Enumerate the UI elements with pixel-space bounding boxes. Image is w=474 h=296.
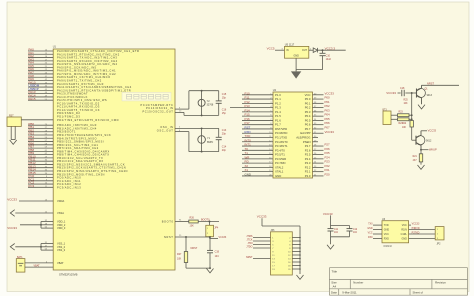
junction NRST left xyxy=(185,236,187,238)
wire JTAG right stub 6 xyxy=(292,244,300,246)
wire C18 to base xyxy=(405,92,416,94)
svg-text:15p: 15p xyxy=(222,97,227,100)
transistor Q1 circle xyxy=(416,88,425,97)
resistor R27 body xyxy=(184,252,187,263)
svg-text:U5 1117: U5 1117 xyxy=(285,42,295,46)
svg-text:VCC33: VCC33 xyxy=(412,223,420,226)
wire U2 pin P0.1 xyxy=(313,102,324,104)
svg-text:BOOT0: BOOT0 xyxy=(201,219,210,222)
wire regulator GND stub xyxy=(295,58,297,69)
wire MCU pin PA5 xyxy=(28,66,53,68)
svg-text:C12: C12 xyxy=(353,229,358,231)
wire U3 to JP2 pin2 xyxy=(409,233,436,235)
wire U2 pin P3.7/RD xyxy=(242,162,273,164)
wire S3 upper xyxy=(391,114,398,116)
wire osc bottom rail xyxy=(184,114,219,116)
wire ground stub regulator xyxy=(295,70,297,72)
JTAG connector JP1 body xyxy=(271,232,293,275)
wire MCU pin PB2 xyxy=(28,131,53,133)
wire U2 pin P2.0 xyxy=(313,175,324,177)
svg-text:C10: C10 xyxy=(326,55,331,58)
svg-text:VSS_3: VSS_3 xyxy=(57,248,66,252)
wire U2 pin P1.1 xyxy=(242,98,273,100)
svg-text:10K: 10K xyxy=(190,225,195,228)
wire MCU pin PA9 xyxy=(28,80,53,82)
title block mid line xyxy=(329,278,467,280)
wire U2 pin P2.7 xyxy=(313,145,324,147)
wire Q1 node vertical xyxy=(411,93,413,121)
junction JTAG bus 12 xyxy=(299,254,301,256)
svg-text:R1IN: R1IN xyxy=(401,228,407,231)
wire JTAG right stub 12 xyxy=(292,254,300,256)
svg-text:IN: IN xyxy=(286,49,289,52)
svg-text:R21: R21 xyxy=(413,156,418,158)
wire MCU pin PB15 xyxy=(28,173,53,175)
capacitor C12 plates xyxy=(347,229,353,231)
svg-text:PC3/ADC_IN13: PC3/ADC_IN13 xyxy=(57,185,81,189)
junction R24 node xyxy=(411,118,413,120)
wire U2 pin P1.3 xyxy=(230,107,273,109)
ground NRST circuit xyxy=(207,269,214,273)
wire MCU pin PA7 xyxy=(28,73,53,75)
svg-text:RST: RST xyxy=(9,115,14,117)
junction R23 node xyxy=(411,114,413,116)
wire MCU pin PA1 xyxy=(28,53,53,55)
transistor Q2 collector xyxy=(416,131,421,138)
wire VSS_3 xyxy=(41,249,53,251)
wire VBAT lower xyxy=(25,266,53,268)
wire Q2 emitter to R21 xyxy=(420,150,422,154)
wire U2 pin P2.6 xyxy=(313,149,324,151)
wire U2 pin P2.1 xyxy=(313,171,324,173)
transistor Q2 base bar xyxy=(415,136,417,145)
wire U2 pin P2.5 xyxy=(313,154,324,156)
svg-text:Sheet of: Sheet of xyxy=(413,291,424,295)
svg-text:VCC33: VCC33 xyxy=(386,91,396,95)
wire U2 pin ALE/PROG xyxy=(313,137,319,139)
button S2 body xyxy=(7,117,21,126)
wire U2 pin P3.6/WR xyxy=(242,158,273,160)
svg-text:10K: 10K xyxy=(177,258,182,261)
wire MCU pin PC2 xyxy=(28,183,53,185)
svg-text:RXD: RXD xyxy=(384,237,389,240)
svg-text:NRST: NRST xyxy=(191,247,198,250)
junction JTAG bus 10 xyxy=(299,251,301,253)
svg-text:VCC3.3: VCC3.3 xyxy=(325,46,336,50)
wire U2 pin P2.2 xyxy=(313,166,324,168)
wire decoupling to ground xyxy=(330,237,332,245)
wire VSSA xyxy=(15,212,53,214)
wire U2 pin P1.2 xyxy=(242,102,273,104)
junction VSS bus xyxy=(40,246,42,248)
wire MCU pin PA0 xyxy=(28,50,53,52)
junction VDD bus xyxy=(40,224,42,226)
svg-text:VCC: VCC xyxy=(402,224,407,227)
wire U3 pin VCC xyxy=(373,233,382,235)
wire U2 pin PSEN xyxy=(313,141,319,143)
wire U2 pin P3.3/INT1 xyxy=(242,145,273,147)
key button S3 body xyxy=(383,111,391,125)
wire WKUP xyxy=(421,149,429,151)
svg-text:VCC33: VCC33 xyxy=(325,130,335,134)
svg-text:Number: Number xyxy=(353,280,363,284)
resistor R22 body xyxy=(410,121,413,128)
wire OSC_OUT to osc xyxy=(175,131,189,133)
junction JTAG bus 8 xyxy=(299,247,301,249)
wire cap C11 lower xyxy=(330,231,332,237)
svg-text:WKUP: WKUP xyxy=(429,148,437,152)
wire JTAG right stub 18 xyxy=(292,265,300,267)
wire MCU pin USBDM xyxy=(28,86,53,88)
svg-text:VCC33: VCC33 xyxy=(257,214,267,218)
MCU U1 body STM32F103 xyxy=(53,49,175,270)
svg-text:VDD_3: VDD_3 xyxy=(57,226,66,230)
wire MCU pin PB11 xyxy=(28,160,53,162)
svg-text:10K: 10K xyxy=(404,103,409,105)
svg-text:VCC33: VCC33 xyxy=(323,212,333,216)
svg-text:IRM232: IRM232 xyxy=(384,245,393,248)
wire S2 leg join xyxy=(11,139,15,141)
wire VDD feed xyxy=(20,224,41,226)
wire decoupling top rail xyxy=(331,225,350,227)
wire JTAG JTMS xyxy=(253,237,271,239)
svg-text:VCC33: VCC33 xyxy=(7,197,17,201)
wire MCU pin PA15 xyxy=(28,99,53,101)
wire JTAG right stub 4 xyxy=(292,240,300,242)
wire U2 pin P1.5 xyxy=(242,115,273,117)
svg-text:JTDO: JTDO xyxy=(246,246,252,249)
capacitor C10 plates xyxy=(320,53,326,55)
wire U2 pin P3.1/TXD xyxy=(242,137,273,139)
wire JTAG JTCK xyxy=(253,240,271,242)
wire VDD_3 xyxy=(41,227,53,229)
capacitor C15 plates xyxy=(216,101,222,103)
svg-text:32768: 32768 xyxy=(207,104,214,107)
svg-text:NRST: NRST xyxy=(427,82,434,86)
svg-text:GND: GND xyxy=(294,55,300,58)
ground arrow VSS xyxy=(10,244,14,251)
wire U2 pin P3.5/T1 xyxy=(242,154,273,156)
battery BT1 body xyxy=(16,259,25,273)
junction crystal bottom xyxy=(201,114,203,116)
title block top line xyxy=(329,267,467,269)
ground decoupling caps xyxy=(327,245,334,249)
wire MCU pin PB6 xyxy=(28,144,53,146)
junction JTAG bus 14 xyxy=(299,258,301,260)
wire cap C12 upper xyxy=(349,226,351,229)
wire MCU pin PC1 xyxy=(28,180,53,182)
wire VCC33 output xyxy=(318,49,346,51)
wire U2 pin P3.2/INT0 xyxy=(242,141,273,143)
svg-text:VCC33: VCC33 xyxy=(7,226,17,230)
wire U3 pin TXD xyxy=(373,224,382,226)
svg-text:VSSA: VSSA xyxy=(57,211,64,215)
wire U3 pin GND xyxy=(373,229,382,231)
wire BOOT0 from MCU xyxy=(175,221,189,223)
wire VCC5 to regulator xyxy=(275,49,285,51)
wire MCU pin PA8 xyxy=(28,76,53,78)
wire U2 pin VCC xyxy=(313,94,324,96)
wire cap column lower 8M xyxy=(218,140,220,152)
svg-text:OUT: OUT xyxy=(302,49,308,52)
wire MCU pin PB9 xyxy=(28,154,53,156)
resistor R24 body xyxy=(398,118,410,121)
wire S3 lower xyxy=(391,118,398,120)
wire PC14 to osc xyxy=(175,108,189,110)
title block divider number-revision xyxy=(431,279,433,288)
wire U3 pin RXD xyxy=(373,237,382,239)
wire U2 pin P0.2 xyxy=(313,107,324,109)
junction BOOT0 xyxy=(209,221,211,223)
wire U2 pin RST/VPD xyxy=(242,128,273,130)
svg-text:20p: 20p xyxy=(222,149,227,152)
capacitor C11 plates xyxy=(328,229,334,231)
crystal Y2 vertical xyxy=(201,91,203,116)
wire VDD bus vertical xyxy=(40,222,42,229)
title block lower line xyxy=(329,288,467,290)
wire JTAG VCC horizontal xyxy=(262,225,300,227)
wire NRST cap upper xyxy=(209,237,211,250)
wire MCU pin PC0 xyxy=(28,177,53,179)
svg-text:VCC33: VCC33 xyxy=(428,128,437,132)
wire regulator OUT xyxy=(309,49,313,51)
wire S2 leg1 xyxy=(10,126,12,139)
wire MCU pin PA13 xyxy=(28,93,53,95)
junction Q2 emitter xyxy=(420,149,422,151)
svg-text:C18: C18 xyxy=(400,87,405,90)
svg-text:STM32F103VB: STM32F103VB xyxy=(59,273,78,277)
wire MCU pin PB12 xyxy=(28,163,53,165)
wire MCU pin PB5 xyxy=(28,141,53,143)
wire jumper top xyxy=(209,222,211,226)
transistor Q1 emitter xyxy=(417,95,422,104)
title block right border xyxy=(467,268,469,296)
wire R21 to ground xyxy=(420,162,422,165)
wire U2 pin XTAL1 xyxy=(242,171,273,173)
wire MCU pin PB3 xyxy=(28,134,53,136)
wire VCC33 to C18 xyxy=(398,92,401,94)
wire cap column upper 32k xyxy=(218,91,220,101)
wire PC15 to osc xyxy=(175,111,184,113)
resistor R21 body xyxy=(419,154,422,162)
junction JTAG bus 16 xyxy=(299,261,301,263)
wire JTAG right stub 14 xyxy=(292,258,300,260)
svg-text:R26: R26 xyxy=(190,217,195,220)
wire NRST pulldown lower xyxy=(185,263,187,269)
wire VSS feed xyxy=(15,246,41,248)
wire jumper to VCC33 xyxy=(210,238,219,240)
svg-text:9-Mar-2011: 9-Mar-2011 xyxy=(342,291,357,295)
ground Q1 emitter xyxy=(418,105,425,109)
svg-text:Revision: Revision xyxy=(435,280,446,284)
wire JTAG JTDO xyxy=(253,247,271,249)
svg-text:BT3: BT3 xyxy=(383,109,388,111)
svg-text:10K: 10K xyxy=(402,127,407,129)
title block bottom line xyxy=(329,294,467,296)
diode D1 xyxy=(313,48,317,53)
wire JTAG right stub 2 xyxy=(292,237,300,239)
wire MCU pin PB13 xyxy=(28,167,53,169)
wire VSS_2 xyxy=(41,246,53,248)
wire jumper bottom xyxy=(209,237,211,239)
svg-text:PA15: PA15 xyxy=(28,97,35,101)
wire osc left vertical upper xyxy=(188,91,190,109)
svg-text:C1RL: C1RL xyxy=(401,233,408,236)
junction NRST right xyxy=(209,236,211,238)
wire S2 leg2 xyxy=(14,126,16,139)
svg-text:VCC33: VCC33 xyxy=(219,236,227,239)
wire U2 pin P3.4/T0 xyxy=(242,149,273,151)
svg-text:OSC_OUT: OSC_OUT xyxy=(157,129,174,133)
resistor R26 body xyxy=(189,220,198,223)
wire U2 pin GND xyxy=(242,175,273,177)
crystal Y2 circle xyxy=(198,99,205,106)
svg-text:P3RXD: P3RXD xyxy=(412,227,420,230)
svg-text:P20: P20 xyxy=(325,172,331,176)
wire U2 pin P0.0 xyxy=(313,98,324,100)
wire MCU pin PB14 xyxy=(28,170,53,172)
capacitor C18 plates xyxy=(402,90,404,96)
svg-text:GND: GND xyxy=(401,237,407,240)
wire S2 to MCU PD2 xyxy=(21,119,53,121)
wire VBAT upper xyxy=(25,262,53,264)
wire Q1 collector to NRST xyxy=(422,84,460,86)
wire R22 to Q2 base xyxy=(411,127,413,140)
junction NRST rail xyxy=(209,267,211,269)
wire base Q2 xyxy=(412,139,416,141)
wire JTAG right stub 16 xyxy=(292,261,300,263)
wire U2 pin P0.3 xyxy=(313,111,324,113)
svg-text:OSC_IN: OSC_IN xyxy=(160,125,173,129)
wire osc left vertical lower xyxy=(183,112,185,115)
wire VSS bus vertical xyxy=(40,244,42,251)
svg-text:15p: 15p xyxy=(222,112,227,115)
wire OSC_IN rail xyxy=(175,127,219,129)
wire decoupling feed xyxy=(330,215,332,225)
wire cap C10 lower xyxy=(322,56,324,70)
ground JTAG xyxy=(297,275,304,279)
junction JTAG bus 4 xyxy=(299,240,301,242)
battery BT1 plates xyxy=(18,263,24,266)
svg-text:R22: R22 xyxy=(402,123,407,125)
wire MCU pin USBDP xyxy=(28,89,53,91)
crystal Y1 vertical xyxy=(201,128,203,151)
svg-text:9012: 9012 xyxy=(426,140,432,143)
wire MCU pin PB7 xyxy=(28,147,53,149)
wire U3 to JP2 pin1 xyxy=(409,229,436,231)
regulator U5 AMS1117 body xyxy=(285,46,309,58)
wire JTAG VCC vertical xyxy=(261,218,263,226)
svg-text:NRST: NRST xyxy=(246,256,253,259)
title block left border xyxy=(328,268,330,296)
wire U2 pin P2.3 xyxy=(313,162,324,164)
wire osc top rail xyxy=(189,90,219,92)
svg-text:PC15/OSC32_OUT: PC15/OSC32_OUT xyxy=(142,109,173,113)
wire U3 VCC out xyxy=(409,224,411,226)
wire R23 to node xyxy=(409,114,412,116)
svg-text:BOOT0: BOOT0 xyxy=(162,220,174,224)
crystal Y1 circle xyxy=(198,136,206,144)
wire MCU pin PB0 xyxy=(28,124,53,126)
wire 8M left vertical xyxy=(188,132,190,152)
wire regulator ground rail xyxy=(296,69,322,71)
wire 8M bottom rail xyxy=(189,151,219,153)
wire JTAG ground bus xyxy=(299,238,301,275)
wire MCU pin PB4 xyxy=(28,137,53,139)
svg-text:VCC: VCC xyxy=(384,233,389,236)
MCU U2 body AT89C52 xyxy=(273,92,313,178)
wire JTAG NRST xyxy=(253,258,271,260)
svg-text:R23: R23 xyxy=(399,112,404,114)
wire NRST from MCU xyxy=(175,236,210,238)
power ground regulator xyxy=(291,71,301,78)
svg-text:R25: R25 xyxy=(404,99,409,101)
svg-text:20p: 20p xyxy=(222,132,227,135)
junction JTAG bus 2 xyxy=(299,237,301,239)
sheet cream patch under title block xyxy=(329,290,468,295)
wire U2 pin EA/VPP xyxy=(313,132,324,134)
wire U2 pin P3.0/RXD xyxy=(242,132,273,134)
ground S2 xyxy=(10,140,17,144)
svg-text:P2.0: P2.0 xyxy=(305,174,311,178)
wire cap column lower 32k xyxy=(218,103,220,115)
svg-text:TXD: TXD xyxy=(384,224,389,227)
svg-text:R27: R27 xyxy=(177,253,182,256)
ground Q2 circuit xyxy=(418,165,425,169)
wire MCU pin PA10 xyxy=(28,83,53,85)
wire cap C12 lower xyxy=(349,231,351,237)
junction JTAG bus 6 xyxy=(299,244,301,246)
svg-text:GND: GND xyxy=(367,228,372,230)
wire MCU pin PA2 xyxy=(28,57,53,59)
svg-text:VBAT: VBAT xyxy=(34,264,41,267)
wire MCU pin PA3 xyxy=(28,60,53,62)
wire cap C11 upper xyxy=(330,226,332,229)
wire U2 pin P0.6 xyxy=(313,124,324,126)
transistor Q2 emitter xyxy=(416,143,421,150)
wire U2 pin P0.5 xyxy=(313,119,324,121)
svg-text:NRST: NRST xyxy=(164,235,173,239)
capacitor C19 plates xyxy=(207,250,213,252)
wire decoupling bottom rail xyxy=(331,236,350,238)
wire NRST cap lower xyxy=(209,253,211,268)
svg-text:JP1: JP1 xyxy=(271,229,276,232)
svg-text:4K7: 4K7 xyxy=(413,160,418,162)
wire VDDA xyxy=(19,200,53,202)
wire MCU pin PA6 xyxy=(28,70,53,72)
svg-text:Title: Title xyxy=(332,269,338,273)
header JP2 body xyxy=(435,227,444,240)
capacitor C13 plates xyxy=(216,137,222,139)
wire JTAG right stub 20 xyxy=(292,268,300,270)
wire U3 to JP2 pin3 xyxy=(409,237,436,239)
wire JTAG JTDI xyxy=(253,244,271,246)
wire VSS_1 xyxy=(41,243,53,245)
resistor R23 body xyxy=(398,114,410,117)
svg-text:A4: A4 xyxy=(333,285,337,289)
junction 8M crystal bottom xyxy=(201,151,203,153)
svg-text:RX0: RX0 xyxy=(368,237,373,239)
svg-text:JP4: JP4 xyxy=(214,228,219,230)
title block divider date xyxy=(338,289,340,295)
svg-text:104: 104 xyxy=(215,255,220,258)
svg-text:Date: Date xyxy=(331,291,337,295)
svg-text:9013: 9013 xyxy=(427,94,433,97)
wire U2 pin P1.0 xyxy=(242,94,273,96)
wire U2 pin P1.4 xyxy=(242,111,273,113)
svg-text:GND: GND xyxy=(275,174,281,178)
junction osc_in crystal xyxy=(201,127,203,129)
